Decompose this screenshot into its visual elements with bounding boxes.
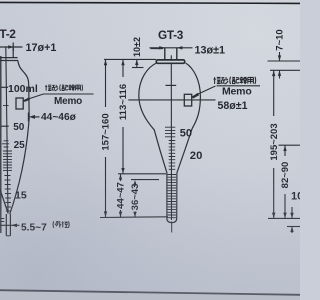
GT-3 13-dia dim line (150, 47, 193, 49)
ext line B (270, 69, 300, 71)
GT-3 memo pointer line (192, 86, 215, 97)
GT-3 bottom tip line (171, 222, 173, 233)
ext line neck top level (151, 48, 164, 50)
dim 10+-2 lower tail (136, 59, 138, 67)
GT-3 13-dia arrowheads (159, 46, 164, 49)
GT-3 memo pointer arrowhead (192, 93, 199, 99)
baseline left (100, 216, 168, 219)
GT-2 44-46 tick on cone edge (27, 113, 29, 122)
GT-3 neck right wall (176, 48, 178, 60)
GT-2 stem right wall (9, 214, 11, 236)
GT-2 17-dia dimension line (0, 46, 23, 48)
GT-2 50 graduation tick (2, 125, 9, 127)
GT-3 memo rectangle (184, 94, 191, 106)
dim 7-10 lower segment (279, 70, 281, 78)
ext line GT-3 flange top level (104, 58, 156, 60)
GT-3 neck left wall (164, 48, 166, 60)
dim line 44-47 lower (120, 210, 122, 217)
arrowheads right column (278, 55, 281, 60)
dim 7-10 upper segment (279, 52, 281, 61)
GT-2 75 graduation tick (3, 105, 9, 107)
dim line 113-116 lower (122, 127, 124, 174)
GT-2 17-dia arrowhead (8, 45, 13, 49)
strip above top border (0, 0, 300, 2)
GT-2 left-edge cut dimension line (0, 56, 2, 233)
dim line 36-43 lower (134, 212, 136, 217)
top border line (0, 2, 300, 5)
GT-3 100 graduation wide tick (166, 84, 177, 86)
area below bottom border (0, 290, 300, 300)
GT-3 body outline (139, 63, 201, 223)
GT-2 44-46 dim line with arrow (31, 116, 40, 118)
GT-3 memo label underline (217, 85, 261, 87)
GT-2 memo pointer arrowhead (23, 97, 30, 102)
baseline right (268, 217, 300, 219)
GT-2 100ml graduation tick (1, 86, 8, 88)
GT-2 left edge (enters at image edge) (0, 190, 8, 214)
bottom border line (0, 289, 300, 295)
GT-2 17-dia tick on mouth wall (12, 43, 14, 52)
GT-2 stem bottom (6, 235, 10, 237)
dim line 157-160 upper (105, 59, 107, 107)
GT-2 centerline (6, 48, 8, 214)
ext line D (287, 226, 300, 228)
GT-2 5.5-7 arrowhead (11, 224, 17, 228)
kanji label (memo, GT-2): surisuna(kirokuyou) (45, 85, 82, 91)
dim 10+-2 tail bar (132, 67, 144, 69)
GT-2 shoulder curve and right edge (10, 61, 30, 215)
dim line 157-160 lower (105, 157, 107, 217)
GT-2 flange top line (0, 57, 18, 59)
ext line tube top level (118, 173, 166, 175)
GT-3 50 graduation ticks (165, 127, 175, 137)
GT-2 25 graduation ticks (2, 141, 9, 147)
ext line A top (268, 60, 301, 62)
kanji label (gaikei = outer dia) (53, 221, 69, 228)
dim line 44-47 upper (120, 174, 122, 181)
GT-2 flange bottom line (0, 60, 18, 62)
GT-3 centerline neck stub (170, 55, 172, 61)
dim line 82-90 lower (284, 194, 286, 218)
GT-2 stem left ticks (1, 219, 5, 222)
dim line 195-203 upper (273, 70, 275, 116)
GT-2 44-46 arrowhead (29, 115, 35, 119)
GT-2 dense graduation ladder (3, 151, 12, 171)
arrowheads middle column (104, 60, 107, 65)
dim line 195-203 lower (273, 168, 275, 218)
GT-2 memo rectangle (16, 98, 23, 109)
GT-3 centerline (170, 63, 172, 221)
GT-2 lower graduation ticks (5, 176, 12, 212)
ext line funnel mid level (131, 179, 159, 181)
GT-2 stem left wall (5, 214, 7, 236)
GT-2 mouth right wall (12, 47, 14, 58)
GT-2 memo pointer line (24, 94, 94, 101)
GT-3 flange (156, 60, 184, 63)
dim 10 lower segment (291, 227, 293, 234)
dim line 82-90 upper (284, 145, 286, 156)
GT-3 funnel graduation ticks (169, 141, 176, 170)
GT-2 5.5-7 dim line (0, 224, 20, 226)
GT-3 tube graduation ladder (168, 175, 176, 218)
GT-3 58-dia dim line (128, 99, 215, 101)
dim 10 upper segment (291, 207, 293, 218)
kanji label (memo, GT-3): surisuna(kirokuyou) (214, 77, 256, 84)
ext line C (279, 144, 301, 146)
dim line 113-116 upper (122, 59, 124, 77)
